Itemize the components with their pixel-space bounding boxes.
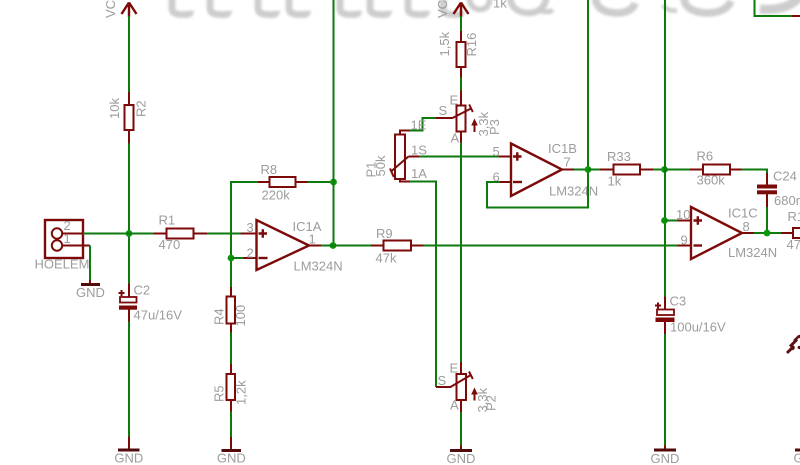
svg-text:7: 7	[564, 155, 571, 170]
wire IC1A output to R9	[321, 245, 372, 247]
svg-text:C2: C2	[134, 283, 151, 298]
svg-text:100u/16V: 100u/16V	[670, 320, 726, 335]
svg-text:P3: P3	[487, 119, 502, 135]
svg-text:GND: GND	[447, 451, 476, 465]
svg-text:IC1C: IC1C	[728, 206, 758, 221]
svg-text:1k: 1k	[608, 174, 622, 189]
wire C3 to ground	[664, 334, 666, 446]
svg-text:R2: R2	[134, 100, 149, 117]
wire IC1C output	[754, 232, 782, 234]
svg-text:1,2k: 1,2k	[234, 380, 249, 405]
svg-text:IC1B: IC1B	[548, 141, 577, 156]
svg-text:3: 3	[247, 220, 254, 235]
wire top right corner	[755, 0, 800, 16]
svg-text:A: A	[451, 131, 460, 146]
resistor R1 470	[154, 213, 208, 253]
op-amp IC1B	[493, 141, 599, 199]
junction IC1A pin2 node	[228, 255, 235, 262]
svg-text:1,5k: 1,5k	[437, 31, 452, 56]
resistor R9 47k	[371, 226, 424, 266]
svg-text:VCC: VCC	[103, 0, 118, 18]
supply VCC left	[103, 0, 137, 18]
wire IC1B feedback loop	[487, 170, 588, 208]
svg-text:220k: 220k	[262, 188, 291, 203]
wire R33 to junction	[653, 169, 665, 171]
wire top rail x588	[587, 0, 589, 170]
resistor R5 1,2k	[212, 364, 249, 412]
svg-text:1A: 1A	[411, 166, 427, 181]
svg-text:680n: 680n	[774, 193, 800, 208]
junction node A	[126, 230, 133, 237]
wire IC1B output	[574, 169, 588, 171]
wire P2 A to ground	[460, 412, 462, 446]
wire R2 to node A	[128, 144, 130, 285]
resistor R6 360k	[690, 149, 742, 188]
svg-text:2: 2	[247, 246, 254, 261]
svg-text:10: 10	[676, 207, 690, 222]
svg-text:GND: GND	[217, 451, 246, 465]
junction R8 right	[330, 179, 337, 186]
wire junction to R6	[665, 169, 691, 171]
junction IC1B output	[585, 166, 592, 173]
wire top rail x665	[664, 0, 666, 297]
svg-text:100: 100	[233, 305, 248, 327]
svg-text:R16: R16	[464, 33, 479, 57]
wire VCC left to R2	[128, 16, 130, 93]
svg-text:S: S	[439, 103, 448, 118]
svg-text:R4: R4	[212, 308, 227, 325]
ground under HOELEM	[76, 280, 105, 300]
svg-text:50k: 50k	[373, 155, 388, 176]
resistor R2 10k	[107, 92, 149, 144]
wire C2 to ground	[128, 322, 130, 438]
resistor R4 100	[212, 287, 249, 333]
svg-text:R8: R8	[261, 162, 278, 177]
wire P1 1A down to P2 S	[410, 182, 436, 388]
svg-text:C24: C24	[773, 169, 797, 184]
op-amp IC1A	[241, 219, 343, 274]
resistor R33 1k	[600, 149, 654, 189]
wire HOELEM pin2 to R1	[83, 233, 154, 235]
wire R8 row left	[230, 181, 259, 183]
svg-text:R1: R1	[159, 213, 176, 228]
svg-text:9: 9	[681, 233, 688, 248]
scribble mark	[787, 335, 800, 353]
svg-text:1E: 1E	[411, 118, 427, 133]
svg-text:8: 8	[743, 219, 750, 234]
ground under P2	[447, 446, 476, 465]
wire R1 to IC1A pin3	[207, 233, 241, 235]
svg-text:HOELEM: HOELEM	[35, 257, 90, 272]
capacitor C24 680n	[757, 169, 800, 209]
wire P1 1S to IC1B pin5	[409, 156, 500, 158]
ground under C3	[651, 446, 680, 465]
ground under C2	[114, 437, 143, 465]
capacitor C3 100u/16V	[655, 294, 726, 335]
op-amp IC1C	[676, 206, 777, 261]
junction IC1C output	[764, 230, 771, 237]
wire pin2 junction to IC1A	[231, 257, 244, 259]
junction IC1A output	[330, 242, 337, 249]
svg-text:VCC: VCC	[435, 0, 450, 18]
svg-text:GND: GND	[76, 285, 105, 300]
svg-text:470: 470	[159, 237, 181, 252]
svg-text:P2: P2	[484, 395, 499, 411]
svg-text:GND: GND	[114, 451, 143, 465]
supply VCC right	[435, 0, 469, 18]
capacitor C2 47u/16V	[119, 283, 183, 323]
resistor R8 220k	[258, 162, 308, 203]
wire P3 A down to P2 E	[460, 143, 462, 364]
wire R5 to ground	[230, 412, 232, 438]
wire HOELEM pin1 to ground	[89, 246, 91, 281]
svg-text:360k: 360k	[697, 173, 726, 188]
svg-text:LM324N: LM324N	[549, 184, 598, 199]
svg-text:1k: 1k	[493, 0, 507, 11]
svg-text:R33: R33	[607, 149, 631, 164]
trimmer P3 3,3k	[439, 91, 503, 146]
wire feedback vertical at x231	[230, 182, 232, 288]
svg-text:47: 47	[787, 237, 800, 252]
junction IC1C pin10 node	[661, 217, 668, 224]
wire top rail x333	[333, 0, 335, 246]
svg-text:R6: R6	[697, 149, 714, 164]
svg-text:R1: R1	[788, 209, 800, 224]
wire VCC to R16	[460, 16, 462, 32]
trimmer P2 3,3k	[436, 361, 499, 413]
svg-text:1: 1	[64, 231, 71, 246]
svg-text:GND: GND	[794, 451, 800, 465]
wire P3 S to P1 1E	[410, 118, 453, 131]
svg-text:47k: 47k	[376, 251, 397, 266]
junction R33/R6 node	[661, 166, 668, 173]
svg-text:LM324N: LM324N	[728, 245, 777, 260]
svg-text:10k: 10k	[107, 98, 122, 119]
wire R16 to P3	[460, 78, 462, 92]
svg-text:E: E	[450, 93, 459, 108]
svg-text:GND: GND	[651, 451, 680, 465]
svg-text:47u/16V: 47u/16V	[134, 308, 183, 323]
svg-text:S: S	[438, 373, 447, 388]
ground bottom right partial	[794, 450, 800, 465]
svg-text:C3: C3	[670, 294, 687, 309]
wire C24 to output junction	[766, 207, 768, 234]
svg-text:E: E	[450, 361, 459, 376]
wire R4 chain	[230, 332, 232, 365]
resistor R10 partial	[781, 209, 800, 252]
connector HOELEM	[35, 218, 91, 272]
svg-text:5: 5	[493, 144, 500, 159]
svg-text:LM324N: LM324N	[294, 259, 343, 274]
watermark	[172, 0, 800, 15]
svg-text:R5: R5	[212, 385, 227, 402]
svg-text:IC1A: IC1A	[293, 219, 322, 234]
wire R9 to IC1C pin9	[424, 245, 679, 247]
resistor R16 1,5k	[437, 31, 479, 78]
svg-text:R9: R9	[376, 226, 393, 241]
wire junction to IC1C pin10	[665, 220, 678, 222]
ground under R5	[217, 437, 246, 465]
svg-text:1S: 1S	[411, 143, 427, 158]
wire junction to R33	[588, 169, 601, 171]
wire R6 to C24	[742, 170, 768, 175]
svg-text:A: A	[450, 398, 459, 413]
wire R8 to junction	[308, 181, 334, 183]
potentiometer P1 50k	[364, 118, 428, 182]
